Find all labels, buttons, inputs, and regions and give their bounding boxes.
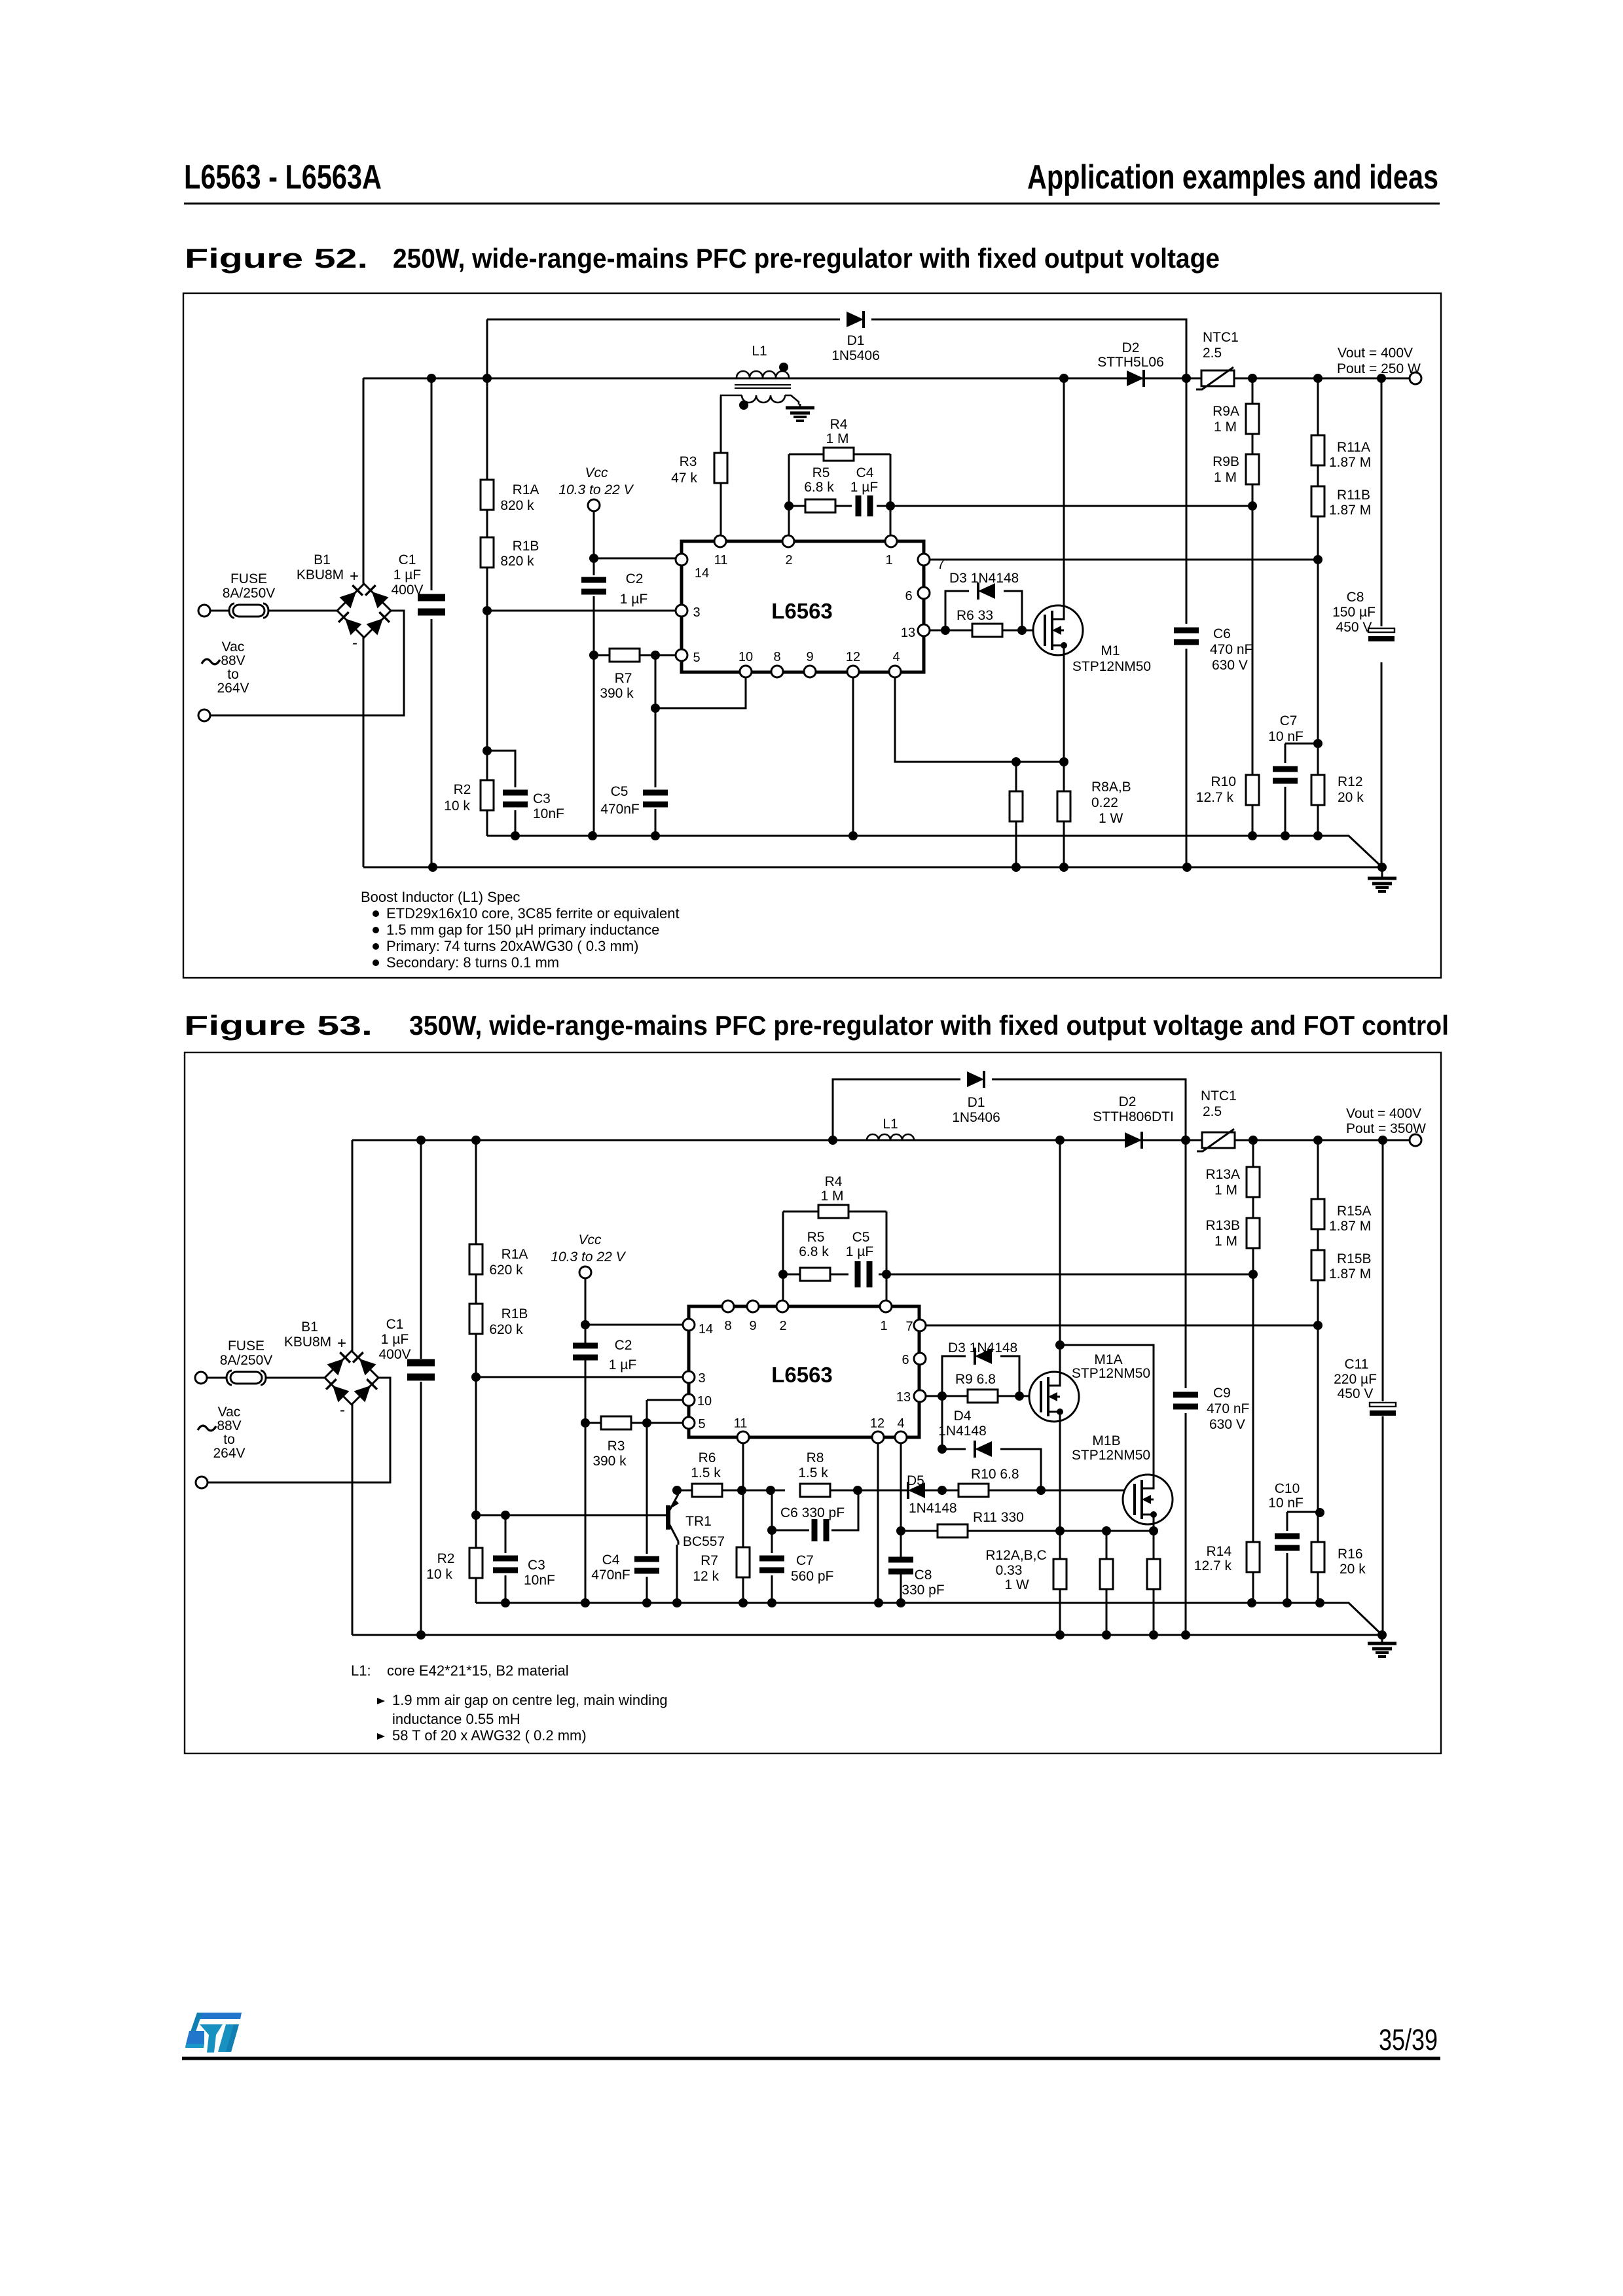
- junction: [483, 746, 492, 755]
- junction: [1015, 1391, 1024, 1401]
- svg-text:1 M: 1 M: [1214, 420, 1237, 435]
- svg-text:1 M: 1 M: [1214, 1234, 1237, 1249]
- wire: pin 3 line: [487, 610, 675, 612]
- svg-text:1.87 M: 1.87 M: [1329, 1219, 1371, 1234]
- svg-text:R11 330: R11 330: [973, 1510, 1024, 1525]
- svg-text:+: +: [337, 1335, 346, 1352]
- wire: bridge + to rail: [352, 1140, 354, 1352]
- pin 4: [889, 666, 901, 677]
- wire: R1A/R1B column: [475, 1140, 477, 1515]
- capacitor C10 10nF: [1275, 1534, 1300, 1551]
- junction: [828, 1136, 837, 1145]
- diode D5 1N4148: [908, 1482, 925, 1499]
- svg-text:470nF: 470nF: [600, 802, 640, 817]
- pin 6: [914, 1353, 926, 1365]
- wire: pin 10 branch: [655, 678, 746, 708]
- wire: C1 column: [431, 378, 433, 867]
- svg-text:D4: D4: [954, 1408, 972, 1424]
- svg-text:L1: L1: [752, 344, 767, 359]
- junction: [896, 1526, 905, 1535]
- wire: R11A/R11B/R12 column: [1317, 378, 1319, 836]
- svg-text:1N5406: 1N5406: [952, 1110, 1000, 1125]
- svg-text:1.87 M: 1.87 M: [1329, 503, 1371, 518]
- fuse FUSE 8A/250V: [229, 603, 268, 618]
- diode D1 1N5406: [847, 311, 864, 328]
- svg-text:1: 1: [885, 553, 892, 567]
- wire: C7 column: [771, 1490, 773, 1603]
- junction: [588, 831, 597, 840]
- wire: C7 leads: [1285, 744, 1286, 836]
- svg-text:7: 7: [937, 558, 944, 572]
- wire: bridge - down: [352, 1404, 354, 1635]
- svg-text:Pout = 350W: Pout = 350W: [1346, 1121, 1426, 1136]
- svg-text:L6563 - L6563A: L6563 - L6563A: [184, 158, 382, 196]
- wire: R4 row: [783, 1211, 886, 1213]
- svg-text:R1B: R1B: [501, 1306, 528, 1321]
- svg-text:R8: R8: [807, 1450, 824, 1465]
- svg-text:BC557: BC557: [683, 1534, 725, 1549]
- svg-text:1 M: 1 M: [826, 431, 848, 446]
- wire: D4 loop: [942, 1449, 1041, 1490]
- pin 4: [895, 1431, 907, 1443]
- svg-text:C8: C8: [915, 1568, 932, 1583]
- svg-text:M1B: M1B: [1092, 1433, 1120, 1448]
- svg-text:Application examples and ideas: Application examples and ideas: [1027, 158, 1438, 196]
- junction: [739, 1598, 748, 1607]
- svg-text:13: 13: [901, 626, 915, 640]
- svg-text:5: 5: [698, 1417, 705, 1431]
- svg-text:Vcc: Vcc: [585, 465, 608, 480]
- junction: [1182, 374, 1191, 383]
- svg-text:STP12NM50: STP12NM50: [1072, 1366, 1150, 1381]
- junction: [416, 1630, 426, 1640]
- junction: [1102, 1526, 1111, 1535]
- wire: C9 column: [1185, 1140, 1187, 1635]
- capacitor C9 470nF 630V: [1173, 1392, 1198, 1410]
- junction: [853, 1486, 862, 1495]
- pin 1: [880, 1300, 892, 1312]
- svg-text:2.5: 2.5: [1203, 1104, 1222, 1119]
- svg-text:C2: C2: [615, 1338, 632, 1353]
- svg-text:88V: 88V: [217, 1418, 241, 1433]
- svg-text:L6563: L6563: [771, 1363, 833, 1387]
- svg-text:R16: R16: [1338, 1547, 1363, 1562]
- junction: [428, 863, 437, 872]
- junction: [501, 1511, 510, 1520]
- wire: D3 loop: [926, 1356, 1019, 1396]
- svg-text:450 V: 450 V: [1338, 1386, 1374, 1401]
- pin 7: [914, 1319, 926, 1331]
- svg-text:1 W: 1 W: [1004, 1577, 1029, 1592]
- junction: [1315, 1508, 1324, 1517]
- resistor R2 10k: [469, 1548, 483, 1578]
- fuse FUSE 8A/250V: [227, 1371, 266, 1385]
- svg-text:C10: C10: [1275, 1481, 1300, 1496]
- svg-text:470nF: 470nF: [591, 1568, 630, 1583]
- diode D3 1N4148: [978, 583, 995, 600]
- wire: pin11/R7 column: [742, 1437, 744, 1603]
- junction: [1378, 1136, 1387, 1145]
- svg-text:820 k: 820 k: [500, 498, 534, 513]
- wire: R12A leads: [1059, 1531, 1061, 1635]
- MOSFET M1A STP12NM50: [1029, 1372, 1079, 1422]
- transistor TR1 BC557: [666, 1490, 679, 1545]
- pin 5: [683, 1417, 695, 1429]
- capacitor C1 1uF 400V: [407, 1359, 435, 1381]
- wire: M1A/M1B drain link: [1060, 1345, 1154, 1475]
- svg-text:TR1: TR1: [685, 1514, 712, 1529]
- svg-text:150 µF: 150 µF: [1332, 605, 1376, 620]
- svg-text:264V: 264V: [217, 681, 249, 696]
- junction: [642, 1418, 651, 1427]
- wire: Vcc drop: [585, 1278, 587, 1344]
- svg-text:20 k: 20 k: [1340, 1562, 1366, 1577]
- svg-text:ETD29x16x10 core, 3C85 ferrite: ETD29x16x10 core, 3C85 ferrite or equiva…: [386, 905, 680, 922]
- svg-text:R13A: R13A: [1205, 1167, 1240, 1182]
- svg-text:11: 11: [734, 1416, 748, 1431]
- diode D3 1N4148: [975, 1348, 992, 1365]
- wire: M1 source to rail: [1063, 655, 1065, 867]
- junction: [416, 1136, 426, 1145]
- junction: [1102, 1630, 1111, 1640]
- svg-text:12: 12: [870, 1416, 884, 1431]
- svg-text:R1B: R1B: [513, 539, 539, 554]
- junction: [642, 1598, 651, 1607]
- resistor R1B 620k: [469, 1304, 483, 1334]
- svg-text:8A/250V: 8A/250V: [223, 586, 276, 601]
- wire: C4 to R9/R10 node: [877, 505, 1252, 507]
- svg-text:630 V: 630 V: [1212, 658, 1248, 673]
- svg-text:20 k: 20 k: [1338, 790, 1364, 805]
- wire: bottom power rail: [352, 1634, 1382, 1636]
- wire: signal ground bus: [476, 1603, 1382, 1635]
- svg-text:STTH5L06: STTH5L06: [1097, 355, 1164, 370]
- pin 8: [722, 1300, 734, 1312]
- svg-text:R14: R14: [1206, 1544, 1231, 1559]
- wire: R15A/R15B/R16 column: [1317, 1140, 1319, 1603]
- svg-text:2: 2: [785, 553, 792, 567]
- svg-text:C1: C1: [386, 1317, 404, 1332]
- svg-text:C5: C5: [852, 1230, 870, 1245]
- junction: [938, 1486, 947, 1495]
- svg-text:10.3 to 22 V: 10.3 to 22 V: [558, 482, 634, 497]
- svg-text:1 µF: 1 µF: [620, 592, 647, 607]
- svg-text:KBU8M: KBU8M: [297, 567, 344, 583]
- junction: [1249, 1270, 1258, 1279]
- wire: R6/R8 row: [677, 1490, 907, 1492]
- terminal: AC input 1: [198, 605, 210, 617]
- pin 2: [776, 1300, 788, 1312]
- junction: [848, 831, 858, 840]
- svg-text:1.87 M: 1.87 M: [1329, 455, 1371, 470]
- junction: [1377, 863, 1387, 872]
- wire: Vcc drop: [593, 511, 595, 575]
- junction: [672, 1486, 682, 1495]
- footer rule: [182, 2057, 1440, 2060]
- wire: D3 loop: [930, 591, 1022, 630]
- junction: [1055, 1630, 1065, 1640]
- resistor R9 6.8: [968, 1390, 998, 1403]
- L1 primary phase dot: [779, 363, 788, 372]
- wire: Vcc column to ground bus: [585, 1423, 587, 1603]
- svg-text:250W, wide-range-mains PFC pre: 250W, wide-range-mains PFC pre-regulator…: [393, 243, 1220, 274]
- junction: [1059, 374, 1068, 383]
- capacitor C4 1uF: [856, 495, 873, 516]
- wire: bridge - down: [363, 637, 365, 867]
- wire: AC input 2 to bridge: [210, 611, 404, 715]
- junction: [1313, 374, 1322, 383]
- pin 3: [683, 1371, 695, 1383]
- bridge rectifier B1 KBU8M: [325, 1351, 378, 1405]
- wire: C2 bottom: [585, 1360, 587, 1423]
- wire: C3 to bus: [515, 810, 517, 836]
- svg-text:400V: 400V: [391, 583, 423, 598]
- svg-text:STP12NM50: STP12NM50: [1072, 659, 1151, 674]
- svg-text:35/39: 35/39: [1379, 2023, 1438, 2056]
- junction: [1017, 626, 1027, 635]
- svg-text:58 T of 20 x AWG32 ( 0.2 mm: 58 T of 20 x AWG32 ( 0.2 mm): [392, 1727, 587, 1744]
- svg-text:9: 9: [806, 650, 813, 664]
- capacitor C7 10nF: [1273, 766, 1298, 784]
- svg-text:9: 9: [749, 1319, 756, 1333]
- svg-text:STTH806DTI: STTH806DTI: [1093, 1109, 1174, 1124]
- resistor R11A 1.87M: [1311, 435, 1324, 465]
- svg-text:R12A,B,C: R12A,B,C: [985, 1548, 1046, 1563]
- IC U1 L6563: [682, 541, 924, 672]
- pin 10: [683, 1394, 695, 1406]
- MOSFET M1 STP12NM50: [1033, 605, 1083, 655]
- svg-text:C3: C3: [528, 1558, 545, 1573]
- svg-text:470 nF: 470 nF: [1207, 1401, 1249, 1416]
- junction: [1149, 1630, 1158, 1640]
- wire: AC input 2 to bridge: [207, 1378, 390, 1482]
- junction: [1181, 1630, 1190, 1640]
- svg-text:1: 1: [880, 1319, 887, 1333]
- wire: pin 12 to bus: [852, 678, 854, 836]
- junction: [501, 1598, 510, 1607]
- wire: pin10 drop: [646, 1400, 648, 1423]
- wire: R13A/R13B/R14 column: [1252, 1140, 1254, 1603]
- resistor R6 33: [972, 624, 1002, 637]
- svg-text:1 µF: 1 µF: [850, 480, 878, 495]
- capacitor C8 330pF: [888, 1557, 913, 1575]
- wire: M1B source: [1153, 1524, 1155, 1531]
- svg-text:1.5 mm gap for 150 µH primary: 1.5 mm gap for 150 µH primary inductance: [386, 922, 659, 938]
- junction: [471, 1511, 481, 1520]
- bridge rectifier B1 KBU8M: [337, 584, 391, 637]
- svg-text:Primary: 74 turns 20xAWG30 (: Primary: 74 turns 20xAWG30 ( 0.3 mm): [386, 938, 639, 954]
- svg-text:C9: C9: [1213, 1386, 1231, 1401]
- svg-text:C8: C8: [1347, 590, 1364, 605]
- junction: [672, 1598, 682, 1607]
- svg-text:STP12NM50: STP12NM50: [1072, 1448, 1150, 1463]
- svg-text:R4: R4: [825, 1174, 843, 1189]
- resistor R12 20k: [1311, 775, 1324, 805]
- resistor R3 390k: [601, 1416, 631, 1429]
- svg-text:88V: 88V: [221, 653, 245, 668]
- svg-text:-: -: [352, 634, 357, 652]
- svg-text:R15B: R15B: [1337, 1251, 1372, 1266]
- wire: TR1 collector drop: [676, 1545, 678, 1603]
- svg-text:10 nF: 10 nF: [1268, 1496, 1304, 1511]
- svg-text:M1A: M1A: [1094, 1352, 1122, 1367]
- svg-text:L1: L1: [883, 1117, 898, 1132]
- svg-text:6.8 k: 6.8 k: [804, 480, 834, 495]
- pin 1: [885, 535, 897, 547]
- svg-text:12: 12: [846, 650, 860, 664]
- ground (power): [1368, 869, 1396, 891]
- pin 12: [847, 666, 859, 677]
- junction: [767, 1598, 776, 1607]
- pin 10: [740, 666, 752, 677]
- svg-text:630 V: 630 V: [1209, 1417, 1245, 1432]
- wire: R12B leads: [1106, 1531, 1108, 1635]
- resistor R9B 1M: [1246, 454, 1259, 484]
- junction: [1248, 374, 1257, 383]
- junction: [784, 501, 793, 511]
- resistor R1A 820k: [481, 480, 494, 510]
- junction: [1313, 555, 1322, 564]
- svg-text:10nF: 10nF: [524, 1573, 555, 1588]
- svg-text:D1: D1: [847, 333, 865, 348]
- svg-text:D1: D1: [968, 1095, 985, 1110]
- junction: [737, 1486, 746, 1495]
- wire: C6 row: [772, 1490, 858, 1530]
- junction: [1315, 1598, 1324, 1607]
- AC source symbol: [198, 1426, 216, 1431]
- wire: pin 3 line: [476, 1376, 682, 1378]
- figure 53 border frame: [185, 1052, 1441, 1753]
- pin 11: [714, 535, 726, 547]
- svg-text:1N5406: 1N5406: [831, 348, 880, 363]
- wire: output rail (top): [363, 378, 1410, 380]
- terminal: Vout: [1410, 1134, 1421, 1146]
- svg-text:620 k: 620 k: [489, 1322, 523, 1337]
- capacitor C6 330pF: [812, 1519, 830, 1541]
- junction: [1249, 1136, 1258, 1145]
- svg-text:+: +: [350, 567, 359, 585]
- wire: R6 row to gate: [945, 630, 1045, 632]
- svg-text:R2: R2: [437, 1551, 455, 1566]
- svg-text:Vout = 400V: Vout = 400V: [1346, 1106, 1421, 1121]
- svg-text:1 µF: 1 µF: [609, 1357, 636, 1372]
- svg-text:13: 13: [896, 1390, 911, 1405]
- pin 11: [737, 1431, 749, 1443]
- svg-text:6.8 k: 6.8 k: [799, 1244, 829, 1259]
- capacitor C7 560pF: [759, 1556, 784, 1573]
- junction: [938, 1391, 947, 1401]
- junction: [882, 1270, 891, 1279]
- svg-text:C4: C4: [602, 1552, 620, 1568]
- wire: R8B leads: [1063, 762, 1065, 867]
- pin 13: [914, 1390, 926, 1402]
- wire: R11 row: [901, 1530, 1154, 1532]
- capacitor C6 470nF 630V: [1174, 628, 1199, 645]
- terminal: Vout: [1410, 372, 1421, 384]
- pin 13: [918, 624, 930, 636]
- pin 9: [747, 1300, 759, 1312]
- wire: C8 column: [1381, 378, 1383, 867]
- resistor R10 12.7k: [1246, 775, 1259, 805]
- wire: pin 4 / C8 column: [900, 1437, 902, 1603]
- wire: C11 column: [1382, 1140, 1384, 1635]
- wire: M1 drain: [1063, 378, 1065, 605]
- svg-text:4: 4: [897, 1416, 904, 1431]
- wire: signal ground bus: [487, 836, 1382, 867]
- svg-text:C11: C11: [1345, 1357, 1369, 1372]
- svg-text:10nF: 10nF: [533, 806, 564, 821]
- capacitor C3 10nF: [503, 790, 528, 808]
- terminal: AC input 2: [198, 709, 210, 721]
- wire: R3 row / pin 5: [585, 1422, 682, 1424]
- svg-text:core E42*21*15, B2 material: core E42*21*15, B2 material: [387, 1662, 569, 1679]
- junction: [1055, 1340, 1065, 1350]
- svg-text:220 µF: 220 µF: [1334, 1372, 1377, 1387]
- wire: R2 leads: [475, 1515, 477, 1603]
- svg-text:M1: M1: [1101, 643, 1120, 658]
- resistor R16 20k: [1311, 1542, 1324, 1572]
- ST logo: [185, 2013, 242, 2053]
- junction: [651, 831, 660, 840]
- svg-text:8: 8: [724, 1319, 731, 1333]
- junction: [1313, 1321, 1322, 1330]
- resistor R15B 1.87M: [1311, 1250, 1324, 1280]
- svg-text:330 pF: 330 pF: [902, 1583, 944, 1598]
- junction: [427, 374, 436, 383]
- svg-text:10: 10: [739, 650, 753, 664]
- svg-text:6: 6: [902, 1353, 909, 1367]
- svg-text:12.7 k: 12.7 k: [1194, 1558, 1232, 1573]
- junction: [651, 704, 660, 713]
- svg-text:400V: 400V: [378, 1347, 410, 1362]
- wire: output rail (top): [352, 1139, 1410, 1141]
- resistor R8A 0.22: [1010, 791, 1023, 821]
- wire: pin 7 to R11 node: [930, 559, 1318, 561]
- svg-text:KBU8M: KBU8M: [284, 1335, 331, 1350]
- wire: pin 10 line: [647, 1399, 682, 1401]
- resistor R13A 1M: [1247, 1167, 1260, 1197]
- svg-text:R9A: R9A: [1213, 404, 1239, 419]
- svg-text:1.5 k: 1.5 k: [691, 1465, 721, 1480]
- svg-text:12.7 k: 12.7 k: [1196, 790, 1234, 805]
- wire: C10 leads: [1286, 1512, 1288, 1603]
- wire: pin 2 column: [782, 1211, 784, 1300]
- svg-text:inductance 0.55 mH: inductance 0.55 mH: [392, 1711, 520, 1727]
- junction: [589, 554, 598, 563]
- capacitor C5 1uF: [855, 1261, 873, 1287]
- pin 14: [676, 554, 687, 565]
- svg-text:C5: C5: [611, 784, 629, 799]
- MOSFET M1B STP12NM50: [1123, 1475, 1173, 1524]
- svg-text:R12: R12: [1338, 774, 1363, 789]
- wire: D5/R10 row to M1B gate: [924, 1490, 1134, 1492]
- resistor R6 1.5k: [692, 1484, 722, 1497]
- svg-text:1 M: 1 M: [820, 1189, 843, 1204]
- svg-text:Figure 53.: Figure 53.: [184, 1010, 373, 1041]
- pin 14: [683, 1319, 695, 1331]
- junction: [1248, 501, 1257, 511]
- svg-text:264V: 264V: [213, 1446, 245, 1461]
- terminal: AC input 2: [196, 1477, 208, 1488]
- junction: [1012, 757, 1021, 766]
- svg-text:5: 5: [693, 651, 700, 665]
- capacitor C8 150uF 450V: [1368, 628, 1395, 641]
- diode D2 STTH5L06: [1127, 370, 1144, 387]
- svg-text:C3: C3: [533, 791, 551, 806]
- svg-text:NTC1: NTC1: [1203, 330, 1239, 345]
- junction: [1313, 1136, 1322, 1145]
- svg-text:14: 14: [699, 1322, 713, 1336]
